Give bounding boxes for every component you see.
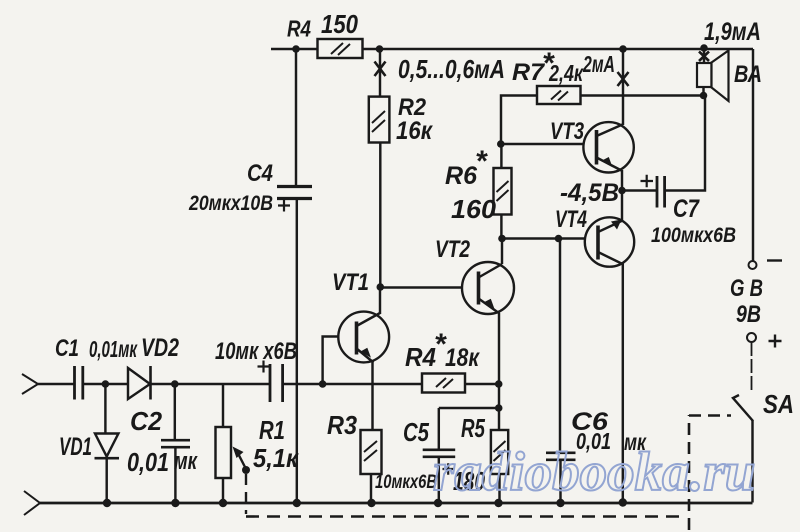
transistor VT4	[585, 217, 634, 266]
input terminal upper	[22, 374, 38, 394]
ground bottom rail	[40, 502, 753, 505]
node junction C2 tap	[171, 380, 179, 388]
node junction R4* / emitter	[495, 380, 503, 388]
resistor R3 body	[361, 430, 382, 474]
svg-text:R1: R1	[259, 415, 285, 445]
svg-text:ВА: ВА	[734, 61, 762, 88]
wire VD2 to R1 bend	[151, 383, 224, 385]
wire VT1 base riser	[323, 337, 357, 385]
node junction R3 ground	[367, 499, 375, 507]
mechanical link dashed to switch	[689, 414, 731, 417]
wire VT2 collector up to driver node	[501, 239, 503, 265]
node junction VT4 ground	[619, 498, 627, 506]
transistor VT3	[583, 122, 633, 172]
capacitor C7 plates	[657, 176, 665, 208]
svg-text:VT2: VT2	[435, 236, 471, 263]
svg-text:160: 160	[451, 194, 497, 224]
svg-text:2,4к: 2,4к	[548, 60, 584, 86]
node junction speaker bottom	[700, 92, 708, 100]
svg-text:VT1: VT1	[332, 269, 369, 296]
svg-text:C4: C4	[247, 160, 273, 187]
wire R5 to ground rail	[498, 474, 500, 503]
resistor R4* (18k) body	[422, 374, 465, 393]
wiper arrow of R1	[233, 447, 247, 470]
wire VT1 emitter down to R3	[371, 362, 373, 431]
wire speaker top lead	[703, 49, 705, 63]
wire VD1 branch down	[104, 384, 106, 434]
wire R6 top to VT3 base node	[500, 144, 502, 168]
diode VD2	[128, 366, 151, 400]
polarity plus of C4	[278, 200, 290, 212]
node junction R1 wiper terminal	[242, 466, 250, 474]
wire VT2 emitter down through R4* node to R5	[498, 313, 500, 430]
capacitor C6 plates	[546, 453, 576, 460]
node junction R1 ground	[219, 499, 227, 507]
wire R3 to ground rail	[370, 474, 372, 503]
svg-text:10мкх6В: 10мкх6В	[375, 472, 437, 493]
wire R6 bottom to node	[500, 215, 502, 239]
svg-text:R4: R4	[287, 16, 311, 42]
svg-text:VD1: VD1	[59, 433, 92, 461]
wire R2 bottom down to VT1 collector / VT2 base node	[379, 143, 381, 288]
svg-text:-4,5В: -4,5В	[560, 179, 619, 207]
svg-text:C1: C1	[55, 335, 79, 362]
svg-text:5,1к: 5,1к	[253, 443, 300, 473]
battery GB minus terminal	[749, 261, 757, 269]
wire input to C1	[38, 383, 74, 385]
node junction C2 ground	[171, 499, 179, 507]
measuring point x mark at R2 top	[375, 62, 386, 77]
switch SA lever	[733, 395, 753, 421]
wire C7 right up to speaker bottom	[665, 96, 705, 191]
wire C6 to ground rail	[559, 460, 561, 503]
resistor R1 potentiometer body	[216, 427, 232, 478]
mechanical link dashed riser	[688, 415, 691, 530]
node junction VT1 base tap	[319, 380, 327, 388]
svg-text:0,5...0,6мА: 0,5...0,6мА	[398, 54, 505, 84]
plus sign battery	[769, 335, 782, 348]
svg-text:мк: мк	[174, 448, 198, 475]
wire VT1 collector up	[379, 287, 381, 314]
node junction VD1 tap	[102, 380, 110, 388]
node junction output -4.5V	[618, 187, 626, 195]
svg-text:R3: R3	[327, 410, 357, 440]
polarity plus of C7	[641, 175, 654, 188]
node junction driver collector / VT4 base wire	[498, 235, 506, 243]
diode VD1	[95, 434, 120, 459]
svg-text:20мкх10В: 20мкх10В	[188, 192, 273, 215]
wire base tap to R4*	[323, 383, 422, 385]
wire C2 branch down	[174, 384, 176, 440]
minus sign	[767, 259, 782, 261]
svg-text:16к: 16к	[396, 117, 433, 145]
wire R1 bottom to ground rail	[222, 478, 224, 503]
wire R4 junction down to R2	[379, 49, 381, 97]
svg-text:VD2: VD2	[141, 334, 179, 362]
wire switch to ground rail	[751, 420, 753, 503]
wire VT4 base from node	[502, 237, 598, 239]
wire C5 down	[438, 408, 440, 449]
mechanical link dashed from R1 wiper	[245, 474, 247, 514]
svg-text:VT3: VT3	[550, 118, 585, 145]
wire C1 to VD2	[83, 383, 128, 385]
mechanical link dashed bottom run	[246, 515, 684, 518]
resistor R5 (180) body	[491, 430, 508, 474]
svg-text:0,01: 0,01	[127, 447, 169, 477]
wire bend down into R1	[222, 384, 224, 427]
node junction VT2 base / VT1 collector	[377, 283, 385, 291]
svg-text:G B: G B	[730, 275, 763, 302]
svg-text:VT4: VT4	[555, 206, 587, 233]
watermark radiobooka.ru	[433, 440, 755, 503]
svg-text:C7: C7	[673, 195, 700, 223]
resistor R6 (160) body	[494, 168, 512, 215]
wire C5 to ground rail	[438, 457, 440, 503]
resistor R4 (150) body	[318, 39, 363, 58]
node junction R5 ground	[494, 499, 502, 507]
measuring point x mark at speaker	[699, 52, 709, 62]
wire VT3 collector up to rail	[622, 49, 624, 125]
svg-text:*: *	[475, 145, 488, 178]
svg-text:SA: SA	[763, 389, 794, 419]
node junction top rail / VT3 collector	[619, 45, 627, 53]
wire VT3 base	[501, 143, 597, 145]
wire C5 horizontal branch	[439, 407, 499, 409]
resistor R7 (2.4k) body	[537, 86, 581, 104]
polarity plus of C5	[443, 463, 455, 475]
svg-text:1,9мА: 1,9мА	[704, 18, 761, 46]
svg-text:C5: C5	[403, 417, 429, 447]
capacitor C2 plates	[161, 440, 190, 447]
wire coupling cap to VT1 base tap	[283, 383, 323, 385]
wire VD1 to ground rail	[105, 458, 107, 503]
wire VT2 base	[380, 286, 478, 288]
node junction VT3 base / R6 / R7	[497, 140, 505, 148]
capacitor C5 plates	[423, 450, 456, 457]
wire VT4 top to output node	[621, 191, 623, 222]
wire C4 vertical from top rail	[295, 49, 297, 185]
wire R4* right to VT2 emitter line	[465, 383, 499, 385]
node junction C5 wire / emitter	[495, 404, 503, 412]
capacitor C1 plates	[75, 366, 83, 400]
svg-text:R6: R6	[445, 162, 478, 190]
resistor R2 (16k) body	[369, 97, 390, 143]
svg-text:R4: R4	[405, 342, 436, 372]
capacitor C4 electrolytic plates	[277, 187, 312, 199]
wire speaker bottom lead	[702, 87, 704, 96]
input terminal lower	[24, 491, 40, 515]
svg-text:150: 150	[321, 9, 358, 39]
node junction top rail / speaker	[700, 44, 708, 52]
svg-text:9В: 9В	[736, 301, 761, 328]
node junction C4 ground	[293, 499, 301, 507]
wire top supply rail	[271, 48, 753, 50]
capacitor 10mk x 6V coupling plates	[270, 364, 283, 402]
wire R7 right to speaker bottom node	[581, 94, 704, 96]
wire C2 to ground rail	[174, 447, 176, 503]
transistor VT1	[338, 312, 389, 363]
wire output node to C7	[622, 189, 656, 191]
wire C6 branch down	[559, 239, 561, 453]
svg-text:100мкх6В: 100мкх6В	[651, 224, 736, 247]
node junction VD1 ground	[103, 499, 111, 507]
wire VT4 bottom to ground rail	[622, 264, 624, 503]
measuring point x mark on VT3 collector	[618, 72, 629, 86]
svg-text:0,01мк: 0,01мк	[89, 336, 138, 362]
transistor VT2	[462, 262, 514, 314]
node junction C6 tap	[555, 235, 563, 243]
svg-text:18к: 18к	[445, 344, 480, 372]
wire C4 bottom down to ground rail	[296, 199, 298, 504]
svg-text:10мк х6В: 10мк х6В	[215, 338, 297, 365]
battery GB plus terminal	[747, 333, 756, 342]
polarity plus of 10mk cap	[258, 361, 270, 373]
speaker BA	[697, 51, 729, 102]
svg-text:2мА: 2мА	[582, 51, 615, 77]
wire R1 top to coupling cap	[223, 383, 269, 385]
wire top rail right down to battery	[752, 49, 754, 261]
node junction C6 ground	[556, 499, 564, 507]
svg-text:C2: C2	[130, 406, 163, 436]
wire VT3 emitter to output node	[621, 170, 623, 191]
node junction C5 ground	[434, 499, 442, 507]
node junction top rail / C4	[292, 45, 300, 53]
svg-text:R5: R5	[461, 413, 485, 443]
svg-text:R7: R7	[512, 59, 546, 86]
node junction R4 right	[376, 45, 384, 53]
wire R7 left riser	[501, 96, 537, 145]
wire battery plus down to switch	[751, 342, 753, 392]
